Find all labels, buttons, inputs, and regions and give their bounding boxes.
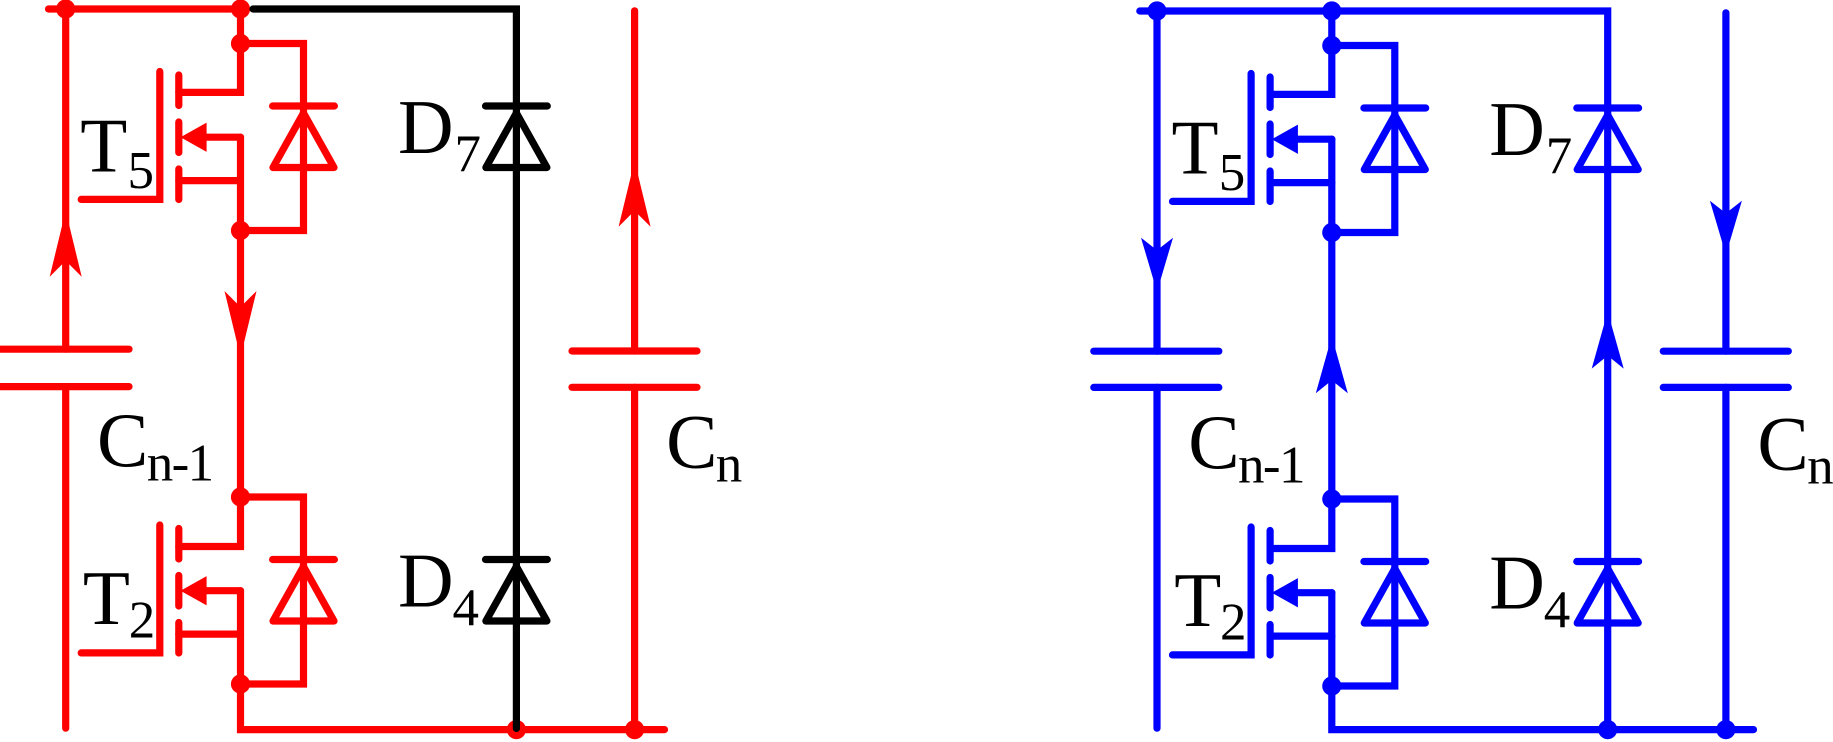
svg-text:C: C — [1188, 399, 1239, 485]
svg-text:2: 2 — [1220, 594, 1247, 652]
svg-text:7: 7 — [1546, 128, 1573, 186]
svg-text:2: 2 — [129, 592, 156, 650]
svg-text:D: D — [1489, 540, 1545, 626]
svg-text:4: 4 — [1544, 581, 1571, 639]
svg-text:5: 5 — [1219, 144, 1246, 202]
svg-text:n: n — [716, 436, 743, 494]
svg-text:D: D — [398, 84, 454, 170]
svg-text:C: C — [97, 397, 148, 483]
svg-text:D: D — [398, 538, 454, 624]
svg-text:D: D — [1489, 86, 1545, 172]
svg-text:C: C — [1757, 400, 1808, 486]
svg-text:n-1: n-1 — [1238, 436, 1304, 494]
svg-text:T: T — [80, 103, 127, 189]
svg-text:C: C — [666, 398, 717, 484]
svg-text:n: n — [1807, 438, 1833, 496]
svg-text:T: T — [1174, 557, 1221, 643]
svg-text:5: 5 — [128, 142, 155, 200]
svg-text:T: T — [1172, 105, 1219, 191]
svg-text:7: 7 — [455, 126, 482, 184]
svg-text:4: 4 — [453, 579, 480, 637]
svg-text:T: T — [83, 555, 130, 641]
svg-text:n-1: n-1 — [147, 434, 213, 492]
